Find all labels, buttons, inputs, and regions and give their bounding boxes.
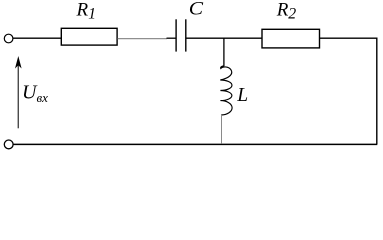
resistor R2 <box>262 29 320 48</box>
wire: lead into C left plate <box>167 37 176 39</box>
terminal: input top-left <box>4 34 13 43</box>
wire: C right plate to R2 (through node) <box>186 37 262 39</box>
svg-text:L: L <box>236 85 248 106</box>
svg-text:R2: R2 <box>276 0 297 23</box>
svg-text:C: C <box>189 0 204 20</box>
wire: R2 to top-right corner and down right side <box>320 38 377 144</box>
terminal: input bottom-left <box>4 140 13 149</box>
resistor R1 <box>61 28 117 45</box>
svg-text:R1: R1 <box>76 0 97 23</box>
arrow: input voltage direction <box>17 63 19 128</box>
wire: top terminal to R1 <box>13 37 61 39</box>
wire: inductor bottom lead (gray) <box>221 115 223 144</box>
inductor L coil <box>220 66 232 115</box>
capacitor C : right plate <box>185 19 187 51</box>
svg-text:Uвх: Uвх <box>22 82 48 105</box>
capacitor C : left plate <box>175 19 177 51</box>
wire: R1 to capacitor (gray segment) <box>118 38 168 40</box>
wire: bottom rail <box>13 143 377 145</box>
wire: node to inductor top lead <box>223 39 225 67</box>
